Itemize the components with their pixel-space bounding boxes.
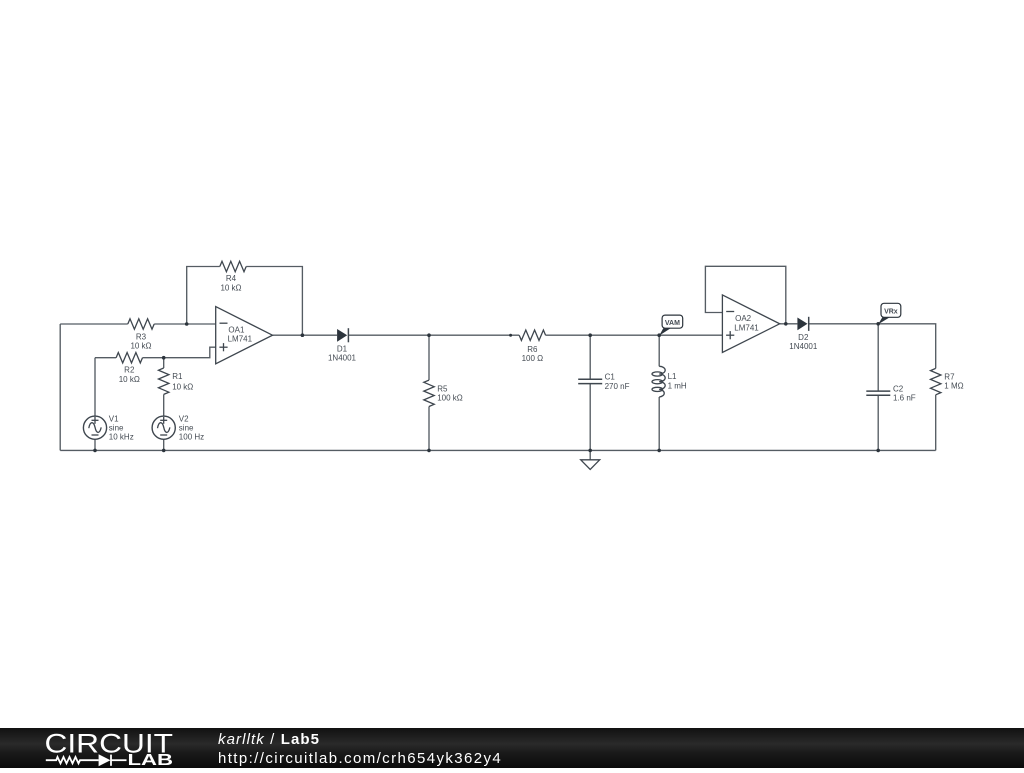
resistor R6 [519, 330, 545, 340]
resistor R2 [116, 353, 142, 363]
svg-text:L1: L1 [668, 372, 677, 381]
wire C2 bottom to rail [877, 395, 879, 450]
resistor R4 [220, 261, 246, 271]
op-amp U2 triangle OA2 [722, 295, 779, 353]
svg-text:C2: C2 [893, 385, 904, 394]
diode D2 filled triangle [797, 318, 807, 331]
wire R5 top stub [428, 335, 430, 380]
wire OA1 output to D1 [273, 334, 338, 336]
footer url text [218, 750, 502, 767]
flag VAM box [662, 315, 683, 328]
wire D2 to VRx node and R7 top [809, 324, 936, 369]
wire R2 right to plus step into OA1 [143, 347, 216, 358]
resistor R3 [128, 319, 154, 329]
wire L1 bottom to rail [658, 397, 660, 450]
node dot VRx/C2 [876, 322, 880, 326]
svg-text:1N4001: 1N4001 [789, 342, 818, 351]
OA1 minus symbol [220, 322, 228, 324]
svg-text:R6: R6 [527, 345, 538, 354]
svg-text:LAB: LAB [128, 752, 174, 768]
wire V1 bottom to rail [94, 439, 96, 450]
diode D2 cathode bar [808, 317, 810, 331]
wire R2 left horizontal stub [95, 357, 116, 359]
ground symbol triangle [581, 460, 600, 470]
resistor R1 [159, 368, 169, 394]
voltage source V1 circle [83, 416, 106, 439]
svg-text:LM741: LM741 [228, 335, 253, 344]
inductor L1 coil [659, 366, 665, 397]
svg-text:LM741: LM741 [734, 323, 759, 332]
node dot V2 bottom [162, 449, 166, 453]
resistor R7 [931, 368, 941, 394]
V2 plus sign [160, 419, 167, 421]
svg-text:10 kΩ: 10 kΩ [220, 283, 241, 292]
node dot L1 bottom [657, 449, 661, 453]
svg-text:R7: R7 [944, 372, 955, 381]
OA2 plus symbol [726, 334, 734, 336]
svg-text:R3: R3 [136, 332, 147, 341]
svg-text:10 kΩ: 10 kΩ [119, 375, 140, 384]
wire V2 bottom to rail [163, 439, 165, 450]
svg-text:sine: sine [109, 423, 124, 432]
svg-text:OA2: OA2 [735, 314, 752, 323]
node dot OA2 output [784, 322, 788, 326]
wire C1 bottom to rail [589, 384, 591, 451]
svg-text:1.6 nF: 1.6 nF [893, 393, 916, 402]
wire C2 top stub [877, 324, 879, 391]
node dot R6 left terminal [509, 334, 512, 337]
wire R7 bottom to rail [935, 395, 937, 451]
node dot R5 top [427, 333, 431, 337]
node dot R4/output junction [301, 333, 305, 337]
svg-text:1 mH: 1 mH [668, 382, 687, 391]
svg-text:VRx: VRx [884, 309, 898, 316]
svg-text:VAM: VAM [665, 320, 680, 327]
wire R4 left leg up from minus node [187, 267, 220, 325]
resistor R5 [424, 380, 434, 406]
svg-text:270 nF: 270 nF [605, 382, 630, 391]
svg-text:D2: D2 [798, 333, 809, 342]
node dot R1/R2 junction [162, 356, 166, 360]
OA1 plus symbol [219, 346, 227, 348]
V2 minus sign [160, 434, 167, 436]
node dot L1/VAM junction [657, 333, 661, 337]
svg-text:1 MΩ: 1 MΩ [944, 382, 963, 391]
diode D1 cathode bar [347, 328, 349, 342]
svg-text:C1: C1 [605, 373, 616, 382]
wire R1 top stub [163, 358, 165, 368]
wire L1 top stub [658, 335, 660, 366]
capacitor C2 plates [866, 391, 890, 395]
svg-text:R2: R2 [124, 366, 135, 375]
svg-text:R5: R5 [437, 385, 448, 394]
V1 plus sign [92, 419, 99, 421]
svg-text:R4: R4 [226, 274, 237, 283]
diode D1 filled triangle [337, 329, 347, 342]
wire R1 bottom to V2 top [163, 394, 165, 416]
svg-text:sine: sine [179, 423, 194, 432]
node dot V1 bottom [93, 449, 97, 453]
svg-text:100 kΩ: 100 kΩ [437, 394, 463, 403]
wire R5 bottom to rail [428, 407, 430, 451]
svg-text:1N4001: 1N4001 [328, 354, 357, 363]
flag VRx pointer [878, 317, 889, 324]
node dot C1 bottom [588, 449, 592, 453]
wire R3 to OA1 minus input [154, 323, 216, 325]
svg-text:100 Ω: 100 Ω [522, 354, 544, 363]
V2 sine squiggle [158, 423, 170, 433]
node dot C1 top [588, 333, 592, 337]
voltage source V2 circle [152, 416, 175, 439]
wire R4 right leg down to output node [246, 267, 302, 336]
footer bar [0, 728, 1024, 768]
capacitor C1 plates [578, 379, 602, 383]
logo resistor-diode glyph [46, 755, 127, 766]
node dot R4/minus junction [185, 322, 189, 326]
wire OA2 output to D2 [780, 323, 798, 325]
wire bottom rail [60, 449, 936, 451]
wire C1 top stub [589, 335, 591, 379]
flag VAM pointer [659, 328, 670, 335]
wire R6 to OA2 plus input [546, 334, 723, 336]
svg-text:V2: V2 [179, 415, 189, 424]
node dot R5 bottom [427, 449, 431, 453]
svg-text:OA1: OA1 [228, 326, 245, 335]
svg-text:10 kΩ: 10 kΩ [130, 342, 151, 351]
op-amp U1 triangle OA1 [216, 307, 273, 364]
flag VRx box [881, 303, 901, 317]
OA2 minus symbol [726, 311, 734, 313]
svg-text:100 Hz: 100 Hz [179, 432, 204, 441]
wire top-left net from rail to R3 [60, 323, 128, 325]
svg-text:D1: D1 [337, 344, 348, 353]
wire ground stub [589, 450, 591, 459]
svg-text:V1: V1 [109, 415, 119, 424]
wire V1 top to R2 left [94, 358, 96, 416]
V1 minus sign [92, 434, 99, 436]
node dot C2 bottom [876, 449, 880, 453]
wire OA2 feedback loop [705, 266, 785, 324]
svg-text:R1: R1 [172, 372, 183, 381]
svg-text:10 kHz: 10 kHz [109, 432, 134, 441]
V1 sine squiggle [89, 423, 101, 433]
footer credit text [218, 731, 320, 748]
svg-text:10 kΩ: 10 kΩ [172, 383, 193, 392]
wire D1 to R6 [348, 334, 519, 336]
wire left rail [59, 324, 61, 450]
